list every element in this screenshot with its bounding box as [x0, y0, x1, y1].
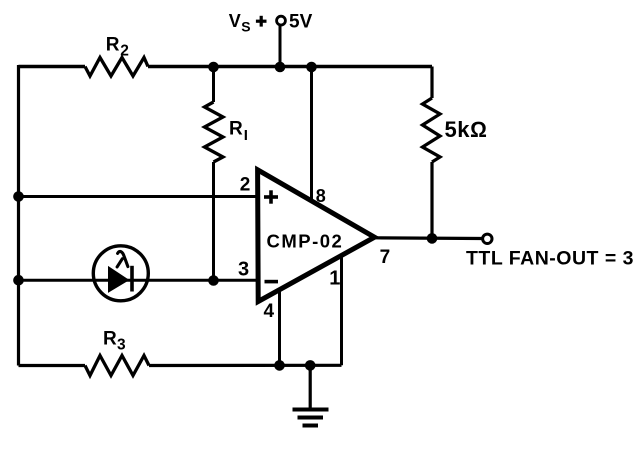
junction dot: Vs / top rail	[275, 62, 286, 73]
wire: bottom rail right segment	[149, 364, 342, 367]
svg-text:CMP-02: CMP-02	[267, 230, 344, 251]
wire: Vs lead down to top rail	[279, 26, 282, 67]
svg-text:5kΩ: 5kΩ	[445, 117, 488, 142]
svg-text:3: 3	[117, 337, 126, 354]
op-amp plus input marker	[264, 195, 278, 199]
svg-text:5V: 5V	[289, 12, 313, 33]
resistor R1	[205, 102, 224, 162]
node: output terminal circle	[483, 234, 492, 243]
junction dot: 5k / output wire	[427, 233, 438, 244]
svg-text:3: 3	[238, 259, 249, 281]
wire: pin2 wire (non-inverting input)	[19, 195, 261, 198]
wire: top rail left segment (left rail to R2)	[19, 65, 86, 68]
svg-text:2: 2	[240, 174, 251, 195]
wire: pin8 lead from top rail to op-amp top edge	[310, 67, 313, 203]
photodiode D1 anode triangle	[109, 267, 129, 292]
wire: left vertical rail	[17, 65, 20, 366]
svg-text:R: R	[229, 118, 243, 139]
junction dot: R1 / pin3 wire	[208, 275, 219, 286]
svg-text:2: 2	[120, 43, 129, 60]
wire: right branch down to 5k resistor	[430, 67, 433, 99]
wire: R1 top lead	[212, 67, 215, 103]
resistor 5k	[423, 98, 441, 162]
wire: 5k bottom lead to output node	[430, 162, 433, 238]
junction dot: ground stub / bottom rail	[305, 360, 316, 371]
wire: output from pin7 apex to terminal	[375, 236, 482, 240]
photodiode D1 circle	[93, 246, 148, 301]
junction dot: R1 / top rail	[208, 62, 219, 73]
photodiode D1 cathode bar	[130, 266, 134, 292]
junction dot: pin4 / bottom rail	[274, 360, 285, 371]
wire: ground stub	[309, 366, 312, 409]
svg-text:8: 8	[316, 186, 326, 206]
node: Vs supply terminal circle	[277, 16, 286, 25]
photodiode lambda symbol	[117, 251, 128, 266]
wire: bottom rail left segment	[19, 364, 86, 367]
op-amp U1 CMP-02 triangle	[258, 170, 375, 302]
wire: R1 bottom lead down to pin3 net	[212, 162, 215, 281]
svg-text:S: S	[241, 18, 250, 34]
wire: pin3 wire (inverting input)	[19, 279, 261, 282]
svg-text:7: 7	[380, 247, 391, 268]
svg-text:4: 4	[264, 301, 275, 322]
wire: top rail right segment (R2 to 5k corner)	[148, 65, 432, 69]
svg-text:1: 1	[329, 268, 340, 290]
junction dot: pin8 / top rail	[306, 62, 317, 73]
svg-text:I: I	[244, 127, 248, 144]
svg-text:TTL FAN-OUT = 3: TTL FAN-OUT = 3	[466, 247, 634, 269]
resistor R2	[85, 58, 148, 77]
svg-text:R: R	[106, 34, 120, 55]
op-amp minus input marker	[265, 280, 279, 284]
wire: pin1 lead from op-amp bottom edge down to ground rail	[340, 254, 343, 365]
svg-text:R: R	[103, 328, 117, 349]
wire: pin4 lead from op-amp bottom edge down to ground rail	[278, 288, 281, 366]
junction dot: left rail / pin3 wire	[13, 275, 24, 286]
junction dot: left rail / pin2 wire	[13, 191, 24, 202]
svg-text:V: V	[229, 11, 241, 31]
ground	[293, 408, 329, 412]
resistor R3	[85, 356, 149, 376]
